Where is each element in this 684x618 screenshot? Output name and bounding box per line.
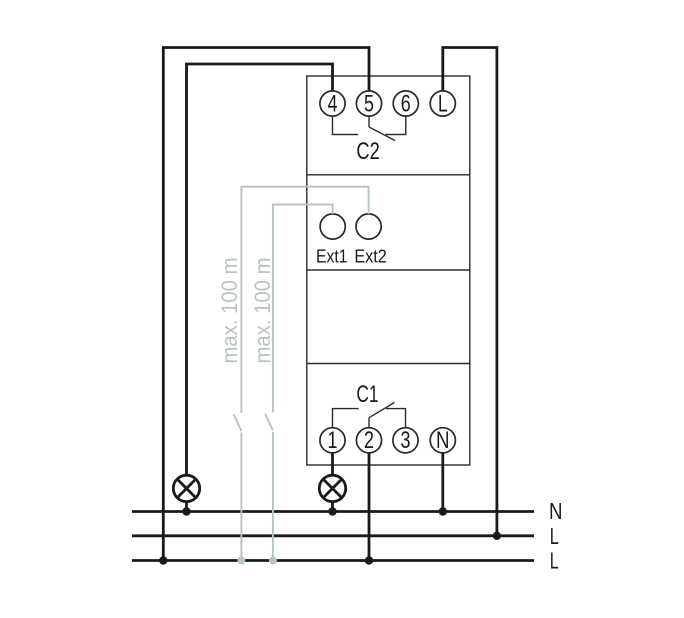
wire: terminal N down to N bus [441,453,444,512]
terminal N [430,427,455,454]
wire: terminal 2 down to bottom L bus [368,453,371,561]
contact C1: contact from terminal 3 [386,409,406,428]
gray switch S1 blade [265,414,273,431]
bus line L bottom [132,559,534,562]
gray wire: Ext2 line lower segment to bottom L bus [240,433,242,561]
svg-text:max. 100 m: max. 100 m [217,258,242,364]
bus line N [132,510,534,513]
terminal 4 [320,90,345,117]
wire: terminal L up, across right, down to middle L bus [443,48,497,537]
junction dot lamp E1 / N bus [182,507,190,515]
wire: terminal 1 down to lamp E2 [331,453,334,476]
contact C2: contact from terminal 6 [386,116,406,134]
gray wire: Ext1 line lower segment to bottom L bus [272,432,274,561]
svg-text:4: 4 [328,90,338,117]
terminal Ext2 [356,214,381,239]
svg-text:N: N [549,498,563,524]
terminal 6 [393,90,418,117]
lamp E2 [319,475,345,501]
junction dot L wire / middle L bus [493,532,501,540]
gray junction dot on L bus (Ext2 line) [237,557,245,565]
terminal 5 [356,90,381,117]
wire: lamp E1 bottom stub to N bus [185,502,188,512]
divider below C2 section [307,174,470,176]
svg-text:3: 3 [401,427,411,454]
svg-text:L: L [438,90,448,117]
wire: lamp E2 bottom stub to N bus [331,502,334,512]
contact C1: switch blade [369,403,395,418]
contact C2: switch blade [369,127,395,141]
contact C1: pole from terminal 1 [333,409,359,428]
terminal 2 [356,427,381,454]
terminal L [430,90,455,117]
svg-text:max. 100 m: max. 100 m [250,258,275,364]
divider below Ext section [307,269,470,271]
device box (time switch outline) [307,76,470,465]
junction dot lamp E2 / N bus [328,507,336,515]
svg-text:2: 2 [364,427,374,454]
contact C2: pole from terminal 4 [333,116,359,134]
junction dot terminal N / N bus [439,507,447,515]
gray switch S2 blade [234,414,242,431]
wire: lamp E1 top up and across to terminal 4 [187,64,333,475]
terminal 3 [393,427,418,454]
svg-text:L: L [550,548,559,574]
lamp E1 [173,475,199,501]
junction dot terminal 2 wire / bottom L bus [365,556,373,564]
terminal Ext1 [320,214,345,239]
svg-text:C2: C2 [356,138,379,165]
svg-text:5: 5 [364,90,374,117]
gray wire: Ext2 external line [241,187,368,413]
svg-text:1: 1 [328,427,338,454]
svg-text:6: 6 [401,90,411,117]
gray junction dot on L bus (Ext1 line) [269,557,277,565]
svg-text:C1: C1 [356,381,378,408]
divider above C1 section [307,363,470,365]
contact C1: stub from terminal 2 [368,418,370,428]
terminal 1 [320,427,345,454]
svg-text:Ext1: Ext1 [316,246,348,267]
gray wire: Ext1 external line [273,205,333,413]
svg-text:Ext2: Ext2 [354,246,387,267]
svg-text:N: N [436,427,450,454]
svg-text:L: L [550,523,559,549]
contact C2: stub from terminal 5 [368,116,370,127]
bus line L middle [132,534,534,537]
wire: bottom L bus up left side and across top to terminal 5 [163,48,369,562]
junction dot left wire / bottom L bus [159,556,167,564]
